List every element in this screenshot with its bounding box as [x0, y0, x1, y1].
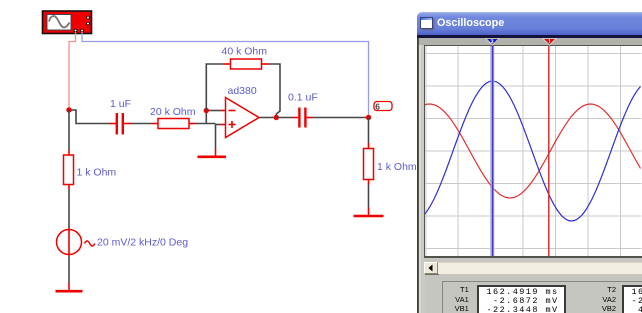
cursor 2 marker (blue triangle) [483, 38, 503, 46]
window left frame [417, 38, 425, 313]
readout labels T2 VA2 VB2 [591, 285, 617, 313]
scope display area [424, 45, 642, 259]
node C output junction dot [274, 115, 279, 120]
wire inverting node to op-amp minus input [206, 110, 225, 112]
wire feedback right down to output node [269, 64, 281, 118]
channel B waveform (blue) [425, 81, 641, 221]
svg-text:20 mV/2 kHz/0 Deg: 20 mV/2 kHz/0 Deg [97, 236, 188, 248]
scope graticule grid [425, 46, 642, 256]
resistor R1 20 k Ohm [152, 119, 197, 129]
wire op-amp output [259, 117, 276, 119]
probe wire channel A (red) [69, 32, 76, 110]
AC source V1 [57, 228, 95, 256]
wire R4 to source V1 [68, 185, 70, 229]
node 6 junction dot [366, 115, 371, 120]
oscilloscope instrument window [416, 12, 642, 313]
cursor 2 line (blue) [491, 46, 494, 256]
readout value box 2 [622, 285, 642, 313]
wire feedback left up from node B [206, 64, 223, 111]
cursor 1 line (red) [548, 46, 550, 256]
readout panel [442, 281, 642, 313]
svg-text:40 k Ohm: 40 k Ohm [222, 46, 268, 58]
node 6 label box [374, 101, 392, 111]
svg-text:0.1 uF: 0.1 uF [288, 92, 318, 104]
probe wire channel B (blue) [82, 32, 369, 115]
wire junction up to inverting node [205, 111, 207, 124]
resistor R4 1 k Ohm (left) [64, 155, 74, 185]
wire C2 to node 6 [313, 117, 369, 119]
window title icon [420, 17, 433, 30]
node B junction dot (inverting input) [204, 108, 209, 113]
window title bar [417, 12, 642, 35]
wire V1 to ground [68, 256, 70, 283]
svg-text:1 uF: 1 uF [110, 98, 131, 110]
channel A waveform (red) [425, 104, 641, 198]
svg-text:6: 6 [375, 101, 380, 111]
resistor R2 40 k Ohm [224, 59, 269, 69]
capacitor C1 1uF [110, 113, 132, 135]
gray band with cursor markers [419, 38, 642, 45]
oscilloscope icon XSC1 screen [47, 15, 71, 31]
wire node A to capacitor row [69, 110, 110, 124]
wire plus input stub [216, 124, 226, 126]
dark line under title bar [417, 35, 642, 38]
ground GND2 (right) [354, 208, 384, 217]
wire R1 to op-amp input junction [196, 123, 216, 125]
scrollbar left arrow button [424, 262, 438, 274]
ground GND1 under op-amp [198, 149, 227, 157]
svg-text:1 k Ohm: 1 k Ohm [77, 167, 117, 179]
oscilloscope icon terminals [74, 16, 89, 32]
svg-text:ad380: ad380 [228, 85, 257, 97]
wire plus branch down to ground [215, 124, 217, 149]
readout labels T1 VA1 VB1 [444, 285, 469, 313]
scrollbar track [438, 262, 642, 274]
cursor 1 marker (red triangle) [540, 38, 560, 46]
svg-text:20 k Ohm: 20 k Ohm [150, 106, 196, 118]
wire C1 to R1 [131, 123, 152, 125]
wire node 6 down to R3 [368, 118, 370, 149]
resistor R3 1 k Ohm (right) [364, 149, 374, 180]
op-amp U1 ad380 [226, 98, 260, 138]
capacitor C2 0.1uF [293, 108, 313, 128]
oscilloscope icon XSC1 body [43, 11, 92, 34]
node A junction dot [66, 107, 71, 112]
wire output to C2 [276, 117, 292, 119]
wire node A down to R4 [68, 110, 70, 155]
svg-text:1 k Ohm: 1 k Ohm [377, 161, 417, 173]
ground GND3 (source) [56, 283, 83, 292]
window client background [417, 38, 642, 313]
readout value box 1 [477, 285, 567, 313]
wire R3 to ground [368, 180, 370, 208]
window title text [437, 17, 504, 29]
